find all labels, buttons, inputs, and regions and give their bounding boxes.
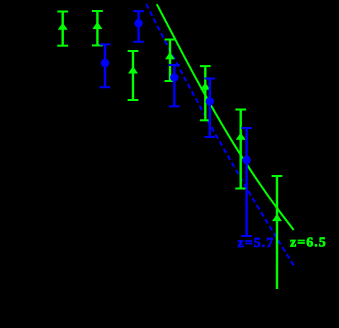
svg-text:z=5.7: z=5.7 <box>238 236 275 251</box>
svg-text:z=6.5: z=6.5 <box>290 236 327 251</box>
